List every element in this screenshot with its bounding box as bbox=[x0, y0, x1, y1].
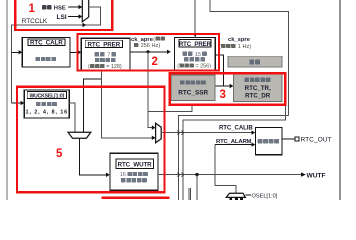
block output control 输出控制 bbox=[256, 128, 283, 155]
svg-text:= 128): = 128) bbox=[106, 64, 122, 70]
wire: async tap down to mux2 lower input bbox=[102, 70, 152, 138]
node junction dot on WUTF line bbox=[195, 173, 198, 176]
svg-text:16: 16 bbox=[120, 172, 126, 178]
svg-text:RTC_CALR: RTC_CALR bbox=[30, 39, 63, 46]
wire: LSE vertical into sync prescaler top bbox=[194, 0, 196, 34]
wire: OSEL mux input stubs bbox=[229, 197, 232, 200]
wire: ck_spre step into shadow TR register bbox=[215, 55, 230, 86]
svg-text:= 256): = 256) bbox=[196, 64, 212, 70]
mux: OSEL alarm output selector bbox=[226, 193, 245, 197]
wire: SSR to TR segment bbox=[215, 85, 224, 87]
annotation red box 2 bbox=[78, 34, 220, 71]
svg-text:2: 2 bbox=[152, 56, 158, 68]
wire: ck_apre branch down bbox=[147, 52, 149, 112]
wire: OSEL label line bbox=[245, 194, 250, 196]
wire: WUCKSEL output step into mux1 bbox=[69, 103, 75, 132]
wire: WUTF line bbox=[158, 174, 302, 176]
block shadow register RTC_SSR bbox=[171, 75, 215, 101]
block RTC_PRER async 7-bit prescaler bbox=[81, 38, 130, 70]
wire: chevron jumps on WUTF line bbox=[177, 173, 184, 177]
svg-text:RTC_PRER: RTC_PRER bbox=[88, 41, 121, 48]
mux2: calibration output selector bbox=[156, 123, 162, 143]
svg-text:1, 2, 4, 8, 16: 1, 2, 4, 8, 16 bbox=[26, 110, 68, 116]
svg-text:1 Hz): 1 Hz) bbox=[238, 44, 252, 50]
wire: ck_apre tap branch to mux1 bbox=[84, 79, 102, 132]
node 分频 HSE label bbox=[42, 5, 47, 9]
wire: H1 horizontal bus bbox=[148, 106, 192, 112]
block shadow registers RTC_TR RTC_DR bbox=[234, 73, 283, 102]
wire: RTC_ALARM arrow into output control bbox=[215, 144, 253, 146]
svg-text:OSEL[1:0]: OSEL[1:0] bbox=[252, 194, 278, 200]
wire: ck_apre to sync prescaler with junction bbox=[130, 51, 168, 53]
block WUCKSEL prescaler bbox=[24, 90, 69, 118]
wire: LSI arrow into mux bbox=[68, 16, 79, 18]
svg-text:RTC_WUTR: RTC_WUTR bbox=[118, 162, 153, 169]
wire: TR bottom output to H2 bbox=[183, 106, 285, 200]
block RTC_WUTR wakeup timer bbox=[110, 153, 158, 190]
wire: V bus line down the left bbox=[179, 115, 289, 200]
svg-text:RTC_PRER: RTC_PRER bbox=[179, 41, 212, 48]
wire: H1 corner down into mux2 upper input bbox=[148, 111, 152, 127]
wire: alarm mux output up to RTC_ALARM bbox=[215, 145, 236, 193]
wire: mux1 output into RTC_WUTR bbox=[80, 138, 107, 175]
wire: junction branch down bbox=[196, 175, 198, 200]
svg-text:256 Hz): 256 Hz) bbox=[141, 43, 161, 49]
svg-text:1: 1 bbox=[29, 3, 36, 15]
block RTC_CALR (smooth calibration) bbox=[22, 38, 70, 67]
svg-text:RTC_SSR: RTC_SSR bbox=[178, 90, 208, 97]
wire: mux output wrap RTCCLK rail bbox=[12, 7, 101, 103]
svg-text:(: ( bbox=[153, 37, 155, 43]
wire: small arrow on RTCCLK rail under mux bbox=[83, 23, 87, 27]
svg-text:WUCKSEL[1:0]: WUCKSEL[1:0] bbox=[29, 94, 64, 100]
mux1: wakeup clock mux bbox=[68, 132, 91, 138]
wire: chevron jumps on CALIB line bbox=[177, 131, 184, 135]
annotation red box 1 bbox=[15, 0, 112, 30]
svg-text:RTCCLK: RTCCLK bbox=[22, 18, 48, 25]
svg-text:RTC_TR,: RTC_TR, bbox=[245, 85, 271, 92]
wire: right page border bbox=[339, 0, 341, 200]
svg-text:RTC_OUT: RTC_OUT bbox=[301, 137, 332, 144]
wire: RTC_CALR to async prescaler arrow bbox=[70, 51, 79, 53]
annotation red box 3 bbox=[170, 73, 286, 104]
svg-text:RTC_ALARM: RTC_ALARM bbox=[216, 139, 252, 145]
wire: RTCCLK arrow into WUCKSEL box bbox=[12, 102, 22, 104]
block RTC_PRER sync 15-bit prescaler bbox=[175, 38, 216, 71]
wire: calendar output bus wrap (top right) bbox=[210, 0, 288, 115]
svg-text:7: 7 bbox=[107, 53, 110, 59]
block calendar 日历 bbox=[228, 56, 282, 67]
annotation red line bottom (cropped box) bbox=[102, 196, 170, 198]
svg-text:WUTF: WUTF bbox=[307, 172, 326, 179]
svg-text:ck_spre: ck_spre bbox=[228, 37, 251, 43]
svg-text:3: 3 bbox=[220, 89, 226, 101]
svg-text:5: 5 bbox=[56, 148, 63, 160]
wire: output control to RTC_OUT pin bbox=[282, 138, 295, 140]
svg-text:(: ( bbox=[88, 64, 90, 70]
wire: RTCCLK branch arrow into RTC_CALR bbox=[12, 51, 20, 53]
svg-text:15: 15 bbox=[195, 52, 201, 58]
annotation red box 5 bbox=[17, 87, 165, 193]
svg-text:HSE: HSE bbox=[54, 6, 66, 12]
mux: RTCCLK clock source selector (top, cropped) bbox=[82, 0, 88, 22]
svg-text:RTC_CALIB: RTC_CALIB bbox=[219, 125, 253, 132]
svg-text:RTC_DR: RTC_DR bbox=[245, 93, 271, 100]
wire: left page border bbox=[6, 0, 8, 200]
node RTC_OUT pad symbol bbox=[295, 137, 299, 141]
wire: mux2 output RTC_CALIB line into output control bbox=[161, 132, 252, 134]
svg-text:ck_apre: ck_apre bbox=[131, 37, 154, 43]
wire: stub pair bottom bbox=[188, 188, 190, 200]
svg-text:(: ( bbox=[177, 64, 179, 70]
wire: HSE arrow into mux bbox=[68, 6, 79, 8]
svg-text:LSI: LSI bbox=[57, 14, 67, 21]
